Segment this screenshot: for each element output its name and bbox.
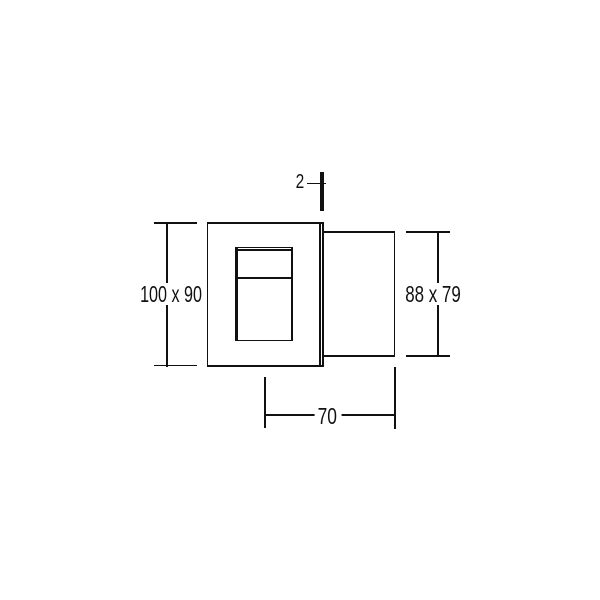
dim 88x79 top tick [406, 231, 450, 233]
dim 88x79 vertical line [437, 231, 439, 357]
front plate bottom edge [207, 365, 324, 367]
dim 100x90 top tick [154, 222, 197, 224]
window outer top line [235, 247, 293, 249]
front plate top edge [207, 222, 324, 224]
dim label 88 x 79 [403, 283, 463, 305]
front plate right edge (front view) [319, 222, 321, 367]
housing right edge [394, 231, 396, 357]
dim 70 right extension line [394, 367, 396, 429]
window right bar [291, 247, 293, 342]
dim 2 horizontal line [307, 183, 326, 185]
window inner top line [238, 249, 291, 251]
dim 2 extension line B [322, 172, 324, 211]
cover plate side view (2mm thickness line) [322, 222, 324, 367]
dim 100x90 bottom tick [154, 365, 197, 367]
dim label 100 x 90 [138, 283, 204, 305]
window divider line [235, 277, 293, 279]
dim 70 left extension line [264, 377, 266, 428]
dim 2 extension line A [320, 172, 322, 211]
dim 100x90 vertical line [166, 222, 168, 367]
dim 70 horizontal line [264, 414, 395, 416]
housing bottom edge [324, 355, 396, 357]
dim label 70 [314, 405, 341, 427]
front plate left edge [207, 222, 209, 367]
dim label 2 [295, 172, 304, 192]
dim 88x79 bottom tick [406, 355, 450, 357]
housing top edge (side view) [324, 231, 396, 233]
window bottom edge [235, 340, 293, 342]
window left bar [235, 247, 238, 342]
